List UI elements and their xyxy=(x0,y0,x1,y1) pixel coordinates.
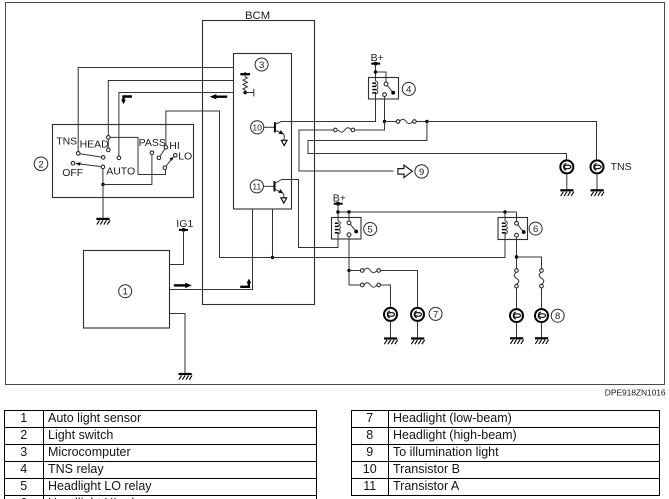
switch contact AUTO-sense xyxy=(117,156,121,160)
wire light switch to ground xyxy=(102,185,104,219)
outer frame of diagram xyxy=(6,3,665,385)
wire HI relay branch to right fuse xyxy=(517,257,542,269)
svg-text:11: 11 xyxy=(252,181,261,191)
svg-text:AUTO: AUTO xyxy=(106,166,135,178)
wire AUTO-sense contact to microcomputer xyxy=(119,93,234,157)
wire HI relay output junction xyxy=(515,237,518,269)
resistor (in microcomputer) xyxy=(240,72,250,94)
wire TNS relay output down to junction xyxy=(383,97,386,124)
figure number label xyxy=(605,388,666,398)
wire microcomputer pin to relay6 coil line xyxy=(271,209,274,259)
arrow symbol: to illumination light xyxy=(398,165,428,178)
switch contact PASS pole xyxy=(150,151,154,155)
ground (high-beam right) xyxy=(535,338,549,344)
wire HEAD terminal to PASS arm pivot xyxy=(110,137,165,174)
wire transistor B collector to TNS relay coil xyxy=(281,99,375,122)
wire high-beam left lamp to ground xyxy=(516,322,518,337)
auto light sensor U1 box xyxy=(84,251,170,329)
svg-text:OFF: OFF xyxy=(62,167,83,179)
wire transistor A collector to headlight LO relay coil xyxy=(281,180,338,248)
switch contact AUTO (common) xyxy=(101,165,105,169)
signal direction elbow arrow (up) into microcomputer xyxy=(240,279,251,287)
ground (light switch) xyxy=(96,219,110,225)
TNS lamp right xyxy=(591,160,632,173)
signal direction arrow (left) into light switch xyxy=(210,94,228,99)
ground (TNS lamp right) xyxy=(591,190,605,196)
headlight low-beam lamp left xyxy=(384,308,397,321)
headlight HI relay K6 xyxy=(498,218,542,240)
svg-text:BCM: BCM xyxy=(245,10,270,22)
TNS lamp left xyxy=(560,160,573,173)
legend table left (items 1-6) xyxy=(4,410,317,499)
ground (high-beam left) xyxy=(510,338,524,344)
svg-text:9: 9 xyxy=(419,167,424,178)
dimmer arm PASS-HI xyxy=(157,149,165,160)
wire fuse to illumination arrow xyxy=(299,130,394,171)
fuse F3 (low-beam right, horizontal) xyxy=(349,268,418,308)
svg-text:2: 2 xyxy=(38,159,43,170)
switch contact TNS xyxy=(76,152,80,156)
switch contact HEAD xyxy=(107,136,111,152)
svg-text:IG1: IG1 xyxy=(176,218,193,230)
ground (low-beam right) xyxy=(411,339,425,345)
wire IG1 to sensor xyxy=(170,230,184,265)
wire TNS relay output down-left through fuse xyxy=(355,122,385,131)
legend table right (items 7-11) xyxy=(351,410,660,496)
ground (auto light sensor) xyxy=(179,374,193,380)
TNS relay K4 xyxy=(369,78,416,100)
switch contact OFF xyxy=(71,161,75,165)
wire TNS lamp left to ground xyxy=(566,174,568,190)
IG1 terminal xyxy=(176,218,193,232)
switch contact LO xyxy=(174,154,178,158)
svg-text:PASS: PASS xyxy=(139,137,166,149)
svg-text:HEAD: HEAD xyxy=(80,139,110,151)
wire relay 6 coil line (HI drive) xyxy=(220,240,506,258)
light switch S2 box xyxy=(34,125,193,198)
fuse F5 (high-beam left, vertical) xyxy=(514,269,519,309)
transistor Q11 (Transistor A) xyxy=(250,180,287,203)
svg-text:1: 1 xyxy=(123,287,128,298)
svg-text:TNS: TNS xyxy=(611,161,632,173)
ground (TNS lamp left) xyxy=(560,190,574,196)
wire low-beam left lamp to ground xyxy=(390,321,392,338)
wire TNS lamp right to ground xyxy=(596,174,598,190)
svg-text:5: 5 xyxy=(368,224,373,235)
svg-text:TNS: TNS xyxy=(56,136,77,148)
BCM box xyxy=(203,10,315,305)
svg-text:8: 8 xyxy=(555,311,560,322)
ground (low-beam left) xyxy=(384,339,398,345)
fuse F4 (low-beam left, horizontal) xyxy=(349,271,391,308)
wire sensor output to microcomputer xyxy=(170,209,253,290)
wire switch common: AUTO to junction to PASS pole xyxy=(101,155,152,187)
wire low-beam right lamp to ground xyxy=(417,321,419,338)
wire HEAD terminal to microcomputer xyxy=(108,81,233,136)
wire node detour to left TNS lamp xyxy=(308,122,567,161)
wire TNS contact to microcomputer xyxy=(78,68,233,152)
headlight low-beam lamp right xyxy=(411,307,442,321)
wire high-beam right lamp to ground xyxy=(541,322,543,337)
switch wiper arm OFF/AUTO with arrowhead xyxy=(75,162,101,166)
fuse F6 (high-beam right, vertical) xyxy=(539,269,544,309)
svg-text:4: 4 xyxy=(406,84,411,95)
signal direction elbow arrow (up-left corner) xyxy=(121,97,132,105)
microcomputer U3 box xyxy=(234,54,292,210)
signal direction arrow (right) from sensor xyxy=(174,283,192,288)
svg-text:B+: B+ xyxy=(371,52,384,64)
switch wiper arm (TNS bridge) xyxy=(80,154,105,160)
wire B+ rail to relays 5 and 6 xyxy=(338,210,517,221)
wire sensor to ground xyxy=(170,314,186,374)
transistor Q10 (Transistor B) xyxy=(251,121,288,146)
svg-text:6: 6 xyxy=(533,224,538,235)
svg-text:LO: LO xyxy=(178,151,192,163)
contact tick right of resistor xyxy=(245,89,254,97)
headlight high-beam lamp right xyxy=(535,309,564,322)
svg-text:3: 3 xyxy=(259,60,264,71)
B+ terminal (headlight relays) xyxy=(333,193,346,218)
headlight LO relay K5 xyxy=(332,218,377,240)
wire fuse to TNS lamps feed node xyxy=(416,120,596,161)
svg-text:DPE918ZN1016: DPE918ZN1016 xyxy=(605,388,666,398)
svg-text:10: 10 xyxy=(252,122,262,132)
dimmer arm to LO with arrowhead xyxy=(163,157,174,170)
switch contact HI xyxy=(164,146,168,150)
headlight high-beam lamp left xyxy=(510,309,523,322)
fuse F1 (illumination feed, horizontal) xyxy=(334,128,355,132)
fuse F2 (TNS feed, horizontal) xyxy=(385,119,417,123)
svg-text:7: 7 xyxy=(433,309,438,320)
wire HI contact to relay 6 coil line xyxy=(166,111,220,258)
B+ terminal (TNS relay) xyxy=(371,52,386,82)
wire LO relay output to fuses xyxy=(347,237,350,273)
